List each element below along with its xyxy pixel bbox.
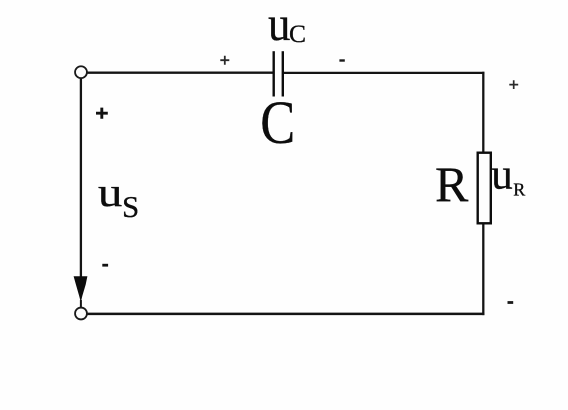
label - (resistor bottom polarity) (508, 301, 514, 304)
svg-text:u: u (268, 0, 290, 51)
svg-text:u: u (98, 169, 123, 215)
wire left vertical (node A down to source arrowhead) (80, 78, 82, 280)
source arrowhead (voltage source us direction arrow) (74, 276, 88, 302)
node A (top-left terminal circle) (75, 66, 87, 78)
svg-text:C: C (260, 90, 295, 157)
label - (source bottom polarity) (102, 264, 108, 267)
capacitor C right plate (282, 51, 284, 96)
capacitor C left plate (273, 51, 275, 96)
wire top-left horizontal (node A to capacitor left plate) (87, 72, 272, 74)
wire bottom horizontal (bottom-right corner to node B) (87, 313, 484, 316)
wire top-right horizontal (capacitor right plate to top-right corner) (284, 72, 485, 74)
wire right vertical lower (resistor bottom to bottom-right corner) (482, 223, 484, 315)
label + (resistor top polarity) (509, 80, 518, 89)
wire right vertical upper (top-right corner to resistor top) (482, 72, 484, 153)
svg-text:u: u (491, 151, 513, 198)
resistor R body (478, 153, 491, 224)
label + (source top polarity) (96, 108, 108, 119)
node B (bottom-left terminal circle) (75, 308, 87, 320)
svg-text:R: R (435, 156, 469, 212)
svg-text:C: C (289, 19, 306, 48)
label - (capacitor right polarity) (339, 59, 344, 61)
svg-text:S: S (122, 189, 139, 224)
wire arrow tip to node B (80, 300, 82, 307)
svg-text:R: R (513, 180, 525, 200)
label + (capacitor left polarity) (220, 56, 229, 65)
